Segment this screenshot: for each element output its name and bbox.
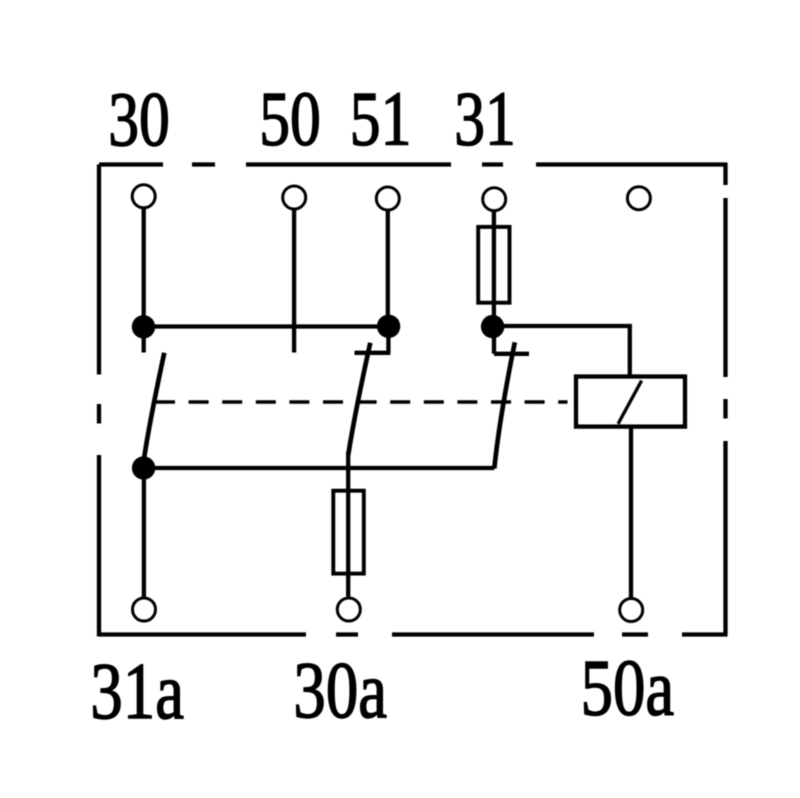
wire: node 31 to relay coil <box>493 326 630 377</box>
svg-text:31: 31 <box>454 77 516 162</box>
fixed contact bracket at node 31 <box>494 327 529 354</box>
junction node at 31a bus <box>132 456 155 479</box>
fuse F2 (on lead of terminal 30a) <box>333 491 364 574</box>
switch arm (30 / 31a contact) <box>144 353 165 461</box>
terminal 30 <box>132 185 155 208</box>
junction node at 31 <box>481 315 504 338</box>
label 30a <box>293 645 387 734</box>
label 50a <box>581 643 675 732</box>
unlabeled terminal <box>627 187 650 210</box>
wire: relay coil to terminal 50a <box>629 427 633 598</box>
junction node at 51 <box>377 315 400 338</box>
label 51 <box>350 77 412 162</box>
svg-text:51: 51 <box>350 77 412 162</box>
fixed contact bracket at node 51 <box>355 327 391 353</box>
junction node at 30 bus <box>132 315 155 338</box>
terminal 30a <box>337 598 360 621</box>
fuse F1 (on lead of terminal 31) <box>478 227 509 303</box>
label 31a <box>90 646 184 735</box>
svg-text:50a: 50a <box>581 643 675 732</box>
terminal 50a <box>620 599 643 622</box>
label 31 <box>454 77 516 162</box>
wire: terminal 31 down through fuse to node <box>492 210 496 327</box>
wire: terminal 30 down to node <box>142 208 146 353</box>
label 30 <box>108 78 170 163</box>
wire: bus 30 to 51 <box>144 324 389 328</box>
label 50 <box>259 77 321 162</box>
wire: node down to terminal 31a <box>142 468 146 598</box>
switch arm (51 / 30a contact) <box>348 343 370 455</box>
wire: lower bus to node 31a <box>144 466 495 470</box>
terminal 51 <box>376 187 399 210</box>
wire: terminal 50 stub <box>292 209 296 353</box>
relay housing outline (dash-dot frame) <box>99 163 728 637</box>
svg-text:31a: 31a <box>90 646 184 735</box>
relay coil K1 <box>576 377 685 427</box>
dashed mechanical link line <box>155 400 568 404</box>
svg-text:50: 50 <box>259 77 321 162</box>
svg-text:30: 30 <box>108 78 170 163</box>
wire: switch arm down through fuse to terminal 30a <box>346 452 350 597</box>
wire: terminal 51 down to node <box>386 210 390 327</box>
svg-text:30a: 30a <box>293 645 387 734</box>
terminal 31a <box>133 598 156 621</box>
terminal 31 <box>483 188 506 211</box>
terminal 50 <box>283 186 306 209</box>
switch arm (31 / lower bus contact) <box>494 342 515 468</box>
